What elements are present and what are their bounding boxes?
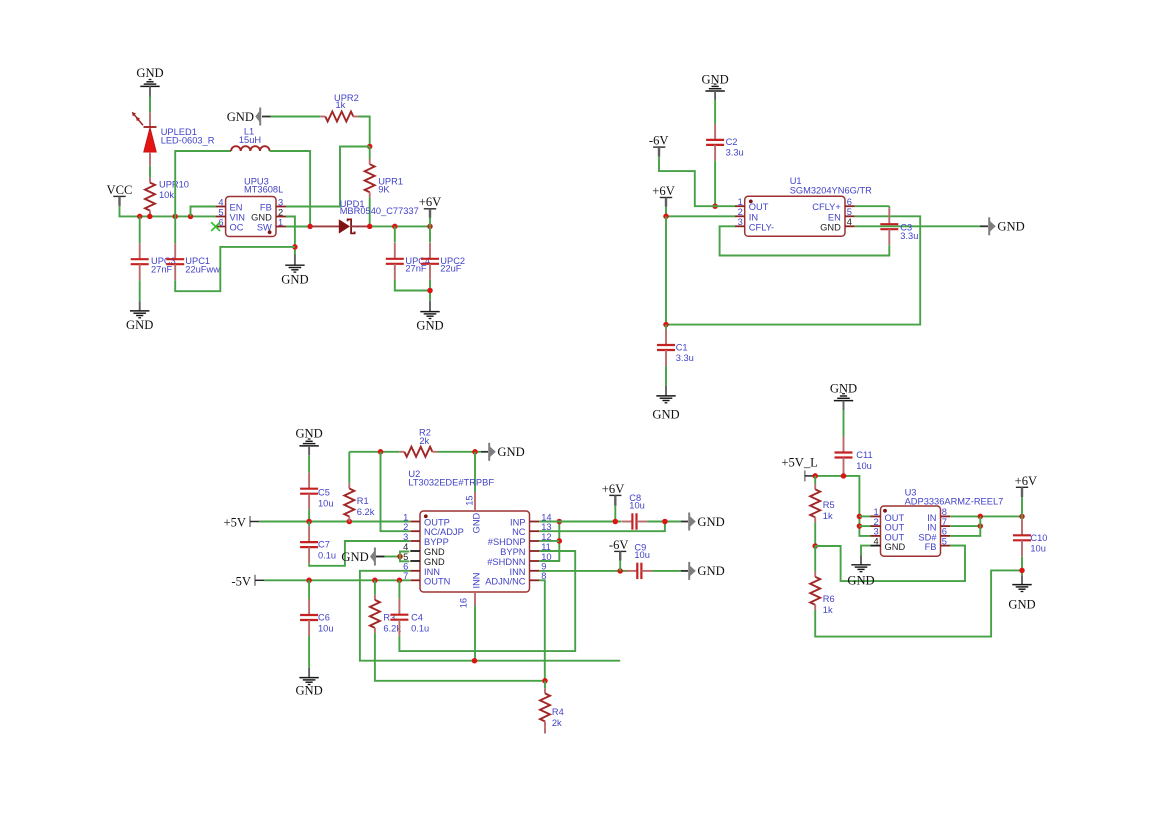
resistor R3 [370,580,401,633]
wire [861,546,871,556]
svg-text:C10: C10 [1030,533,1047,543]
wire [815,546,965,582]
capacitor UPC4 [386,226,430,279]
svg-text:OC: OC [230,222,244,232]
svg-text:3: 3 [403,532,408,542]
svg-text:+6V: +6V [602,482,625,496]
ground [652,386,679,422]
wire [175,247,295,291]
svg-text:+5V: +5V [224,516,247,530]
junction [1019,568,1025,574]
wire [1021,557,1023,576]
wire [539,522,665,532]
svg-text:3: 3 [874,527,879,537]
wire [659,157,735,206]
wire [259,521,410,523]
svg-text:15: 15 [464,495,474,505]
wire [950,515,1022,517]
wire [369,197,371,226]
junction [306,578,312,584]
node IC gnd [292,244,298,250]
svg-text:LED-0603_R: LED-0603_R [161,136,215,146]
svg-text:NC/ADJP: NC/ADJP [424,527,464,537]
wire [815,570,1022,636]
svg-text:OUTP: OUTP [424,518,450,528]
wire [375,633,545,681]
wire [539,580,545,681]
node IN [663,214,669,220]
wire [950,545,965,547]
svg-text:GND: GND [885,542,906,552]
resistor R4 [540,681,564,734]
svg-text:CFLY+: CFLY+ [812,202,841,212]
wire [714,100,716,124]
IC U1 [735,176,872,236]
junction [147,214,153,220]
capacitor C1 [657,325,694,366]
svg-text:0.1u: 0.1u [411,623,429,633]
svg-text:10u: 10u [629,501,645,511]
node pin15 gnd [472,449,478,455]
svg-text:SGM3204YN6G/TR: SGM3204YN6G/TR [790,186,872,196]
wire [308,510,310,522]
wire [539,522,559,562]
wire [191,207,216,217]
svg-text:2k: 2k [419,436,429,446]
svg-text:GND: GND [1008,597,1035,611]
wire [619,561,621,571]
svg-text:4: 4 [847,217,852,227]
svg-text:GND: GND [652,408,679,422]
svg-text:GND: GND [424,547,445,557]
capacitor UPC2 [421,226,465,279]
svg-text:C4: C4 [411,613,423,623]
svg-text:GND: GND [295,684,322,698]
resistor UPR2 [320,93,359,121]
capacitor C5 [300,455,333,509]
svg-text:1: 1 [403,512,408,522]
svg-text:6: 6 [847,197,852,207]
wire [539,570,626,572]
wire [359,117,370,147]
svg-text:1k: 1k [823,605,833,615]
junction [306,519,312,525]
svg-text:GND: GND [295,427,322,441]
svg-text:-5V: -5V [231,574,251,588]
wire [474,606,476,661]
IC UPU3 [216,177,286,237]
svg-text:ADJN/NC: ADJN/NC [485,576,526,586]
svg-text:9K: 9K [378,185,390,195]
wire [120,206,216,217]
svg-text:R1: R1 [357,496,369,506]
node +6V out [427,224,433,230]
wire [438,451,481,453]
wire [429,280,431,301]
svg-text:1: 1 [738,197,743,207]
svg-text:+6V: +6V [419,195,442,209]
power flag -5V [231,574,264,588]
junction [372,578,378,584]
svg-text:BYPN: BYPN [500,547,525,557]
inductor L1 [231,127,269,152]
svg-text:R6: R6 [823,594,835,604]
svg-text:15uH: 15uH [239,135,261,145]
svg-text:5: 5 [847,207,852,217]
power flag +5V_L [781,456,817,482]
svg-text:GND: GND [697,564,724,578]
svg-text:3: 3 [278,197,283,207]
IC U2 [403,469,551,608]
svg-text:2: 2 [403,522,408,532]
wire [271,116,321,118]
node FB divider [367,144,373,150]
resistor UPR10 [145,177,189,215]
svg-text:LT3032EDE#TRPBF: LT3032EDE#TRPBF [408,478,494,488]
svg-text:FB: FB [925,542,937,552]
svg-text:INN: INN [424,567,440,577]
svg-text:GND: GND [830,381,857,395]
svg-text:C2: C2 [726,137,738,147]
svg-text:R4: R4 [552,707,564,717]
svg-text:GND: GND [126,318,153,332]
net flag GND [341,548,384,566]
power flag -6V [649,134,669,157]
diode UPD1 [312,199,419,234]
svg-text:OUT: OUT [885,513,905,523]
svg-text:2k: 2k [552,718,562,728]
svg-text:R5: R5 [823,500,835,510]
wire [666,216,920,324]
net flag GND [227,108,271,126]
ground [830,381,857,410]
wire [855,205,890,207]
resistor R1 [344,452,374,522]
svg-text:IN: IN [927,513,936,523]
svg-text:GND: GND [701,73,728,87]
svg-text:MT3608L: MT3608L [244,185,283,195]
node VCC bus [137,214,143,220]
no-connect X pin 6 [211,222,220,231]
wire [950,525,980,527]
svg-text:3.3u: 3.3u [726,148,744,158]
svg-text:+5V_L: +5V_L [781,456,817,470]
junction [857,523,863,529]
power flag +6V [652,184,675,206]
junction [397,578,403,584]
capacitor UPC1 [166,216,220,280]
junction [378,449,384,455]
svg-text:10u: 10u [318,499,334,509]
capacitor UPC3 [131,216,176,280]
wire [381,452,411,531]
svg-text:1: 1 [278,217,283,227]
wire [474,452,476,492]
wire [385,556,400,558]
junction [392,224,398,230]
svg-text:OUT: OUT [885,532,905,542]
capacitor C6 [300,580,333,636]
svg-text:OUTN: OUTN [424,576,450,586]
wire [360,571,620,661]
capacitor C11 [835,410,873,474]
junction [172,214,178,220]
junction [978,514,984,520]
node gnd pins [397,554,403,560]
svg-text:2: 2 [738,207,743,217]
svg-text:BYPP: BYPP [424,537,449,547]
svg-text:5: 5 [942,536,947,546]
wire [400,552,409,557]
ground [1008,575,1035,611]
svg-text:SD#: SD# [918,532,937,542]
net flag GND [980,217,1025,235]
svg-text:10k: 10k [159,190,174,200]
wire [714,161,716,206]
net flag GND [681,513,725,531]
wire [349,451,399,453]
power flag +5V [224,516,260,530]
wire [149,166,151,178]
svg-text:3: 3 [738,217,743,227]
svg-text:IN: IN [927,523,936,533]
junction [978,523,984,529]
svg-text:C1: C1 [676,342,688,352]
svg-text:4: 4 [403,542,408,552]
junction [472,658,478,664]
net flag GND [681,562,725,580]
svg-text:FB: FB [260,202,272,212]
svg-text:4: 4 [218,197,223,207]
wire [270,151,311,226]
junction [427,288,433,294]
svg-text:INN: INN [471,572,481,588]
svg-text:IN: IN [749,212,758,222]
svg-text:22uFww: 22uFww [185,264,220,274]
wire [665,216,667,324]
wire [652,570,681,572]
svg-text:6: 6 [942,527,947,537]
wire [309,541,410,566]
svg-text:16: 16 [459,598,469,608]
svg-text:GND: GND [471,512,481,533]
svg-text:OUT: OUT [749,202,769,212]
ground [295,427,322,456]
capacitor C7 [300,522,336,564]
svg-text:C6: C6 [318,613,330,623]
junction [857,514,863,520]
node OUT bottom [663,322,669,328]
svg-text:C7: C7 [318,540,330,550]
svg-text:GND: GND [997,220,1024,234]
svg-text:GND: GND [497,445,524,459]
svg-text:GND: GND [227,110,254,124]
ground [295,668,322,698]
wire [720,226,890,255]
resistor R5 [810,476,834,523]
capacitor C8 [621,493,647,530]
capacitor C4 [390,580,429,635]
wire [400,557,409,562]
junction [613,519,619,525]
junction [557,538,563,544]
svg-text:GND: GND [416,319,443,333]
wire [395,280,430,291]
wire [1021,497,1023,516]
wire [286,226,310,228]
svg-text:10u: 10u [634,550,650,560]
svg-text:2: 2 [278,207,283,217]
junction [347,519,353,525]
svg-text:MBR0540_C77337: MBR0540_C77337 [340,206,419,216]
svg-text:GND: GND [424,557,445,567]
svg-text:10u: 10u [1030,544,1046,554]
svg-text:4: 4 [874,536,879,546]
svg-text:#SHDNP: #SHDNP [488,537,526,547]
wire [855,225,980,227]
svg-text:6.2k: 6.2k [357,507,375,517]
resistor UPR1 [365,147,403,198]
svg-text:3.3u: 3.3u [676,353,694,363]
svg-text:GND: GND [847,573,874,587]
wire [370,225,430,227]
svg-text:1: 1 [874,507,879,517]
junction [662,519,668,525]
svg-text:INN: INN [509,567,525,577]
ground [847,556,874,588]
svg-text:C11: C11 [856,450,872,460]
ground [416,301,443,333]
svg-text:C5: C5 [318,488,330,498]
svg-text:0.1u: 0.1u [318,550,336,560]
svg-text:GND: GND [697,515,724,529]
wire [665,366,667,386]
power flag +6V [1015,474,1038,497]
power flag +6V [602,482,625,506]
svg-text:NC: NC [512,527,526,537]
svg-text:5: 5 [403,552,408,562]
wire [539,540,559,542]
svg-text:+6V: +6V [1015,474,1038,488]
capacitor C10 [1013,516,1047,556]
wire [175,151,231,216]
svg-text:CFLY-: CFLY- [749,222,774,232]
svg-text:GND: GND [341,550,368,564]
wire [308,636,310,668]
svg-text:10u: 10u [856,461,872,471]
wire [264,579,410,581]
ground [281,255,308,287]
wire [399,551,575,651]
resistor R6 [810,546,834,615]
svg-text:22uF: 22uF [440,263,462,273]
wire [614,506,616,522]
capacitor C3 [880,206,918,245]
wire [286,217,295,255]
wire [139,280,141,301]
svg-text:3.3u: 3.3u [900,231,918,241]
wire [859,525,870,527]
power flag VCC [107,183,133,206]
svg-text:GND: GND [281,272,308,286]
svg-text:EN: EN [230,202,243,212]
wire [843,474,845,476]
wire [286,147,370,207]
svg-text:-6V: -6V [649,134,669,148]
resistor R2 [399,428,437,457]
svg-text:-6V: -6V [609,538,629,552]
svg-text:27nF: 27nF [151,264,173,274]
svg-text:#SHDNN: #SHDNN [487,557,525,567]
power flag +6V [419,195,442,218]
svg-text:OUT: OUT [885,523,905,533]
junction [367,224,373,230]
svg-text:VCC: VCC [107,183,133,197]
node FB divider U3 [812,543,818,549]
net flag GND [481,443,525,461]
svg-text:GND: GND [820,222,841,232]
wire [539,521,621,523]
wire [950,516,980,536]
LED UPLED1 [132,112,215,166]
capacitor C9 [626,543,652,580]
node ADJN [542,678,548,684]
wire [648,521,682,523]
IC U3 [871,488,1004,557]
junction [188,214,194,220]
junction [557,519,563,525]
svg-text:U1: U1 [790,176,802,186]
svg-text:GND: GND [251,212,272,222]
svg-text:2: 2 [874,517,879,527]
svg-text:10u: 10u [318,623,334,633]
svg-text:1k: 1k [823,511,833,521]
wire [814,523,816,547]
svg-text:1k: 1k [336,100,346,110]
ground [126,301,153,332]
svg-text:7: 7 [403,571,408,581]
svg-text:VIN: VIN [230,212,246,222]
ground [701,73,728,100]
svg-text:5: 5 [218,207,223,217]
wire [666,207,735,217]
wire [149,97,151,113]
svg-text:GND: GND [136,66,163,80]
power flag -6V [609,538,629,561]
junction [617,568,623,574]
node OUT [712,203,718,209]
capacitor C2 [706,124,744,161]
svg-text:UPR10: UPR10 [159,180,189,190]
wire [859,515,870,517]
ground [136,66,163,96]
svg-text:8: 8 [942,507,947,517]
junction [841,473,847,479]
wire [814,476,871,536]
svg-text:7: 7 [942,517,947,527]
svg-text:+6V: +6V [652,184,675,198]
node +6V U3 [1019,514,1025,520]
svg-text:ADP3336ARMZ-REEL7: ADP3336ARMZ-REEL7 [905,496,1004,506]
svg-text:EN: EN [828,212,841,222]
junction [812,473,818,479]
svg-text:11: 11 [541,542,551,552]
svg-text:INP: INP [510,518,526,528]
node SW [307,224,313,230]
